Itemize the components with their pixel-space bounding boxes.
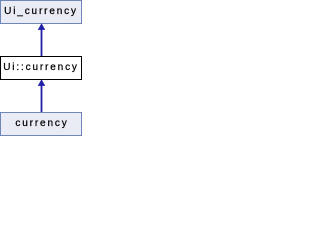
class box Ui_currency	[0, 0, 82, 24]
class box Ui::currency (current class)	[0, 56, 82, 80]
inheritance arrow: Ui::currency to Ui_currency (wire)	[41, 29, 43, 56]
inheritance arrow: currency to Ui::currency (wire)	[41, 85, 43, 112]
arrowhead pointing up into Ui::currency	[38, 79, 45, 86]
arrowhead pointing up into Ui_currency	[38, 23, 45, 30]
class box currency	[0, 112, 82, 136]
